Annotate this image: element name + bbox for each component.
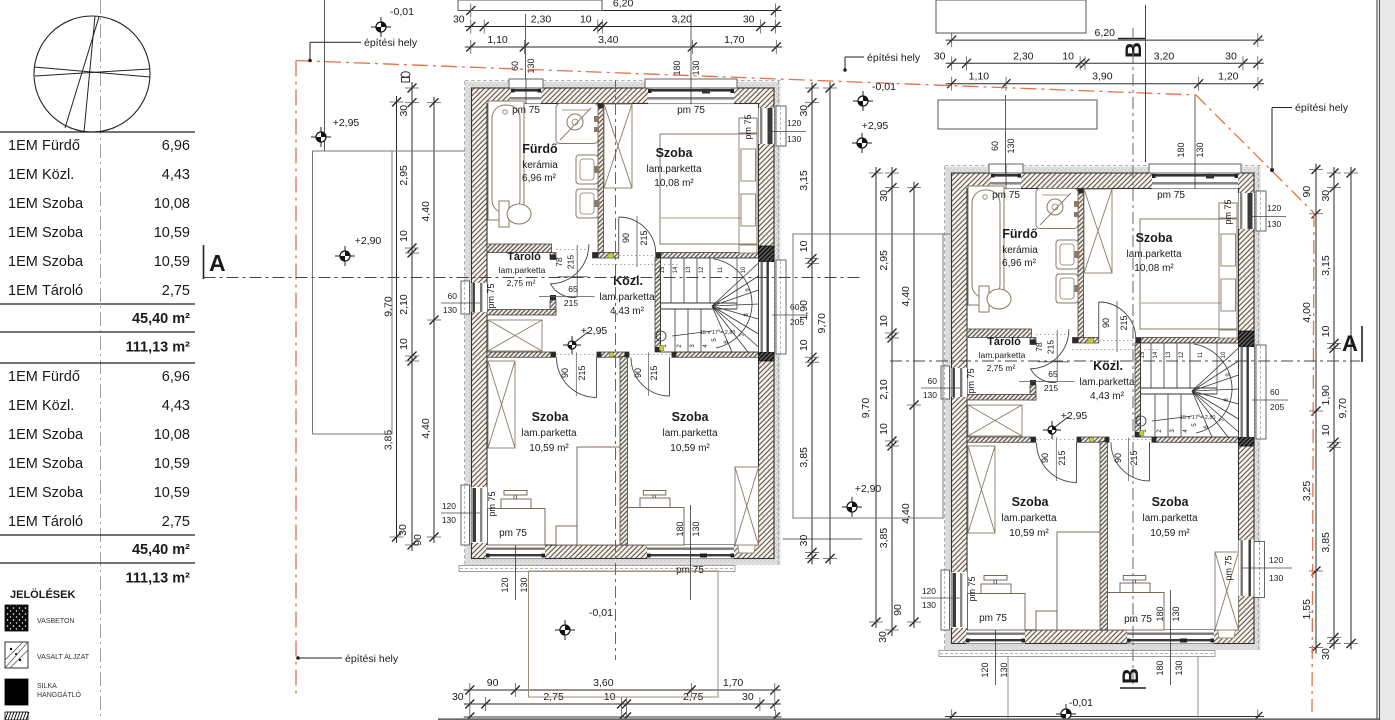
svg-text:4,40: 4,40 xyxy=(900,503,912,524)
svg-text:60: 60 xyxy=(990,141,1000,151)
svg-text:9,70: 9,70 xyxy=(816,313,828,334)
sill band below building xyxy=(459,566,735,572)
window W3 bottom-left xyxy=(486,545,545,559)
svg-text:180: 180 xyxy=(1176,142,1186,157)
sidebar divider dash line xyxy=(100,0,102,718)
right chain of right building xyxy=(1333,167,1335,650)
svg-text:1EM: 1EM xyxy=(8,456,38,472)
svg-text:1EM: 1EM xyxy=(8,514,38,530)
svg-text:6,96: 6,96 xyxy=(162,138,190,154)
bottom-left room furniture xyxy=(488,361,515,448)
yellow lintel marks xyxy=(608,254,614,259)
svg-text:1,20: 1,20 xyxy=(1218,71,1239,83)
svg-text:30: 30 xyxy=(1225,50,1237,62)
svg-text:1EM: 1EM xyxy=(8,254,38,270)
svg-text:10,59: 10,59 xyxy=(154,225,190,241)
svg-text:10,08 m²: 10,08 m² xyxy=(654,178,694,189)
svg-text:építési hely: építési hely xyxy=(1295,102,1349,114)
page right edge xyxy=(1376,0,1378,720)
svg-text:3,25: 3,25 xyxy=(1301,481,1313,502)
svg-text:1,90: 1,90 xyxy=(798,300,810,321)
svg-text:3,85: 3,85 xyxy=(798,447,810,468)
svg-text:180: 180 xyxy=(672,60,682,75)
window W4 bottom-right xyxy=(647,545,734,559)
svg-text:építési hely: építési hely xyxy=(364,37,418,49)
svg-text:65: 65 xyxy=(568,284,578,294)
orange boundary left vertical xyxy=(295,61,297,695)
svg-text:130: 130 xyxy=(691,521,701,536)
svg-text:4,43: 4,43 xyxy=(162,398,190,414)
interior floor xyxy=(487,104,759,546)
svg-text:215: 215 xyxy=(566,255,576,269)
svg-text:4,40: 4,40 xyxy=(900,286,912,307)
svg-text:Fürdő: Fürdő xyxy=(42,369,80,385)
svg-text:lam.parketta: lam.parketta xyxy=(646,164,701,175)
svg-text:1EM: 1EM xyxy=(8,427,38,443)
svg-text:2,10: 2,10 xyxy=(878,379,890,400)
svg-text:+2,90: +2,90 xyxy=(355,235,382,247)
svg-text:3,40: 3,40 xyxy=(598,34,619,46)
svg-text:10,59: 10,59 xyxy=(154,254,190,270)
svg-text:120: 120 xyxy=(1269,555,1283,565)
window W1 top (Furdo) xyxy=(509,79,543,88)
svg-text:9,70: 9,70 xyxy=(1337,398,1349,419)
svg-text:90: 90 xyxy=(560,368,570,378)
nook wardrobe xbox xyxy=(488,320,542,351)
svg-text:+2,95: +2,95 xyxy=(581,325,608,337)
orange boundary diagonal right xyxy=(1196,95,1314,213)
top chain left building xyxy=(465,10,782,12)
svg-text:10: 10 xyxy=(878,315,890,327)
svg-text:Közl.: Közl. xyxy=(613,274,643,288)
svg-text:építési hely: építési hely xyxy=(345,653,399,665)
svg-text:pm 75: pm 75 xyxy=(743,114,753,139)
svg-text:90: 90 xyxy=(633,368,643,378)
svg-text:Szoba: Szoba xyxy=(42,485,84,501)
svg-text:1,10: 1,10 xyxy=(487,34,508,46)
svg-text:3,90: 3,90 xyxy=(1092,71,1113,83)
svg-text:11: 11 xyxy=(718,266,724,273)
svg-text:10: 10 xyxy=(878,423,890,435)
shower xyxy=(556,104,598,144)
svg-text:130: 130 xyxy=(1195,142,1205,157)
svg-text:pm 75: pm 75 xyxy=(487,491,497,516)
svg-text:6,20: 6,20 xyxy=(613,0,634,10)
svg-text:15: 15 xyxy=(660,266,666,273)
svg-text:1,90: 1,90 xyxy=(1320,385,1332,406)
svg-text:Fürdő: Fürdő xyxy=(522,142,558,156)
svg-text:13: 13 xyxy=(686,266,692,273)
stairs xyxy=(661,258,759,352)
svg-text:12: 12 xyxy=(699,266,705,273)
svg-text:60: 60 xyxy=(510,61,520,71)
svg-text:3,85: 3,85 xyxy=(1320,532,1332,553)
svg-text:10: 10 xyxy=(798,339,810,351)
svg-text:1,10: 1,10 xyxy=(969,71,990,83)
terrace left of right building xyxy=(793,234,943,518)
svg-text:+2,90: +2,90 xyxy=(855,483,882,495)
svg-text:Szoba: Szoba xyxy=(42,254,84,270)
svg-text:-0,01: -0,01 xyxy=(390,6,414,18)
outer stipple band xyxy=(465,82,781,566)
svg-text:10,08: 10,08 xyxy=(154,427,190,443)
window W6 right wall top xyxy=(776,106,786,146)
svg-text:120: 120 xyxy=(787,118,801,128)
svg-text:10,59 m²: 10,59 m² xyxy=(529,443,569,454)
svg-text:10,59: 10,59 xyxy=(154,485,190,501)
svg-text:10: 10 xyxy=(1320,424,1332,436)
vent symbol xyxy=(401,72,410,78)
svg-text:30: 30 xyxy=(742,691,754,703)
svg-text:30: 30 xyxy=(878,190,890,202)
svg-text:180: 180 xyxy=(1155,660,1165,675)
svg-text:1,70: 1,70 xyxy=(723,677,744,689)
svg-text:90: 90 xyxy=(621,233,631,243)
svg-text:= 2,80: = 2,80 xyxy=(720,330,735,336)
svg-text:45,40 m²: 45,40 m² xyxy=(132,542,190,558)
svg-text:Szoba: Szoba xyxy=(42,456,84,472)
svg-text:6,96 m²: 6,96 m² xyxy=(522,173,557,184)
svg-text:60: 60 xyxy=(448,291,458,301)
svg-text:-0,01: -0,01 xyxy=(1069,697,1093,709)
svg-text:Tároló: Tároló xyxy=(507,251,541,263)
svg-text:30: 30 xyxy=(798,105,810,117)
svg-text:3,60: 3,60 xyxy=(593,677,614,689)
svg-text:130: 130 xyxy=(526,58,536,73)
svg-text:1EM: 1EM xyxy=(8,485,38,501)
svg-text:30: 30 xyxy=(934,50,946,62)
orange boundary right vertical xyxy=(1312,213,1314,712)
svg-text:lam.parketta: lam.parketta xyxy=(599,292,654,303)
svg-text:30: 30 xyxy=(398,105,410,117)
right bldg right-wall bottom window xyxy=(1239,540,1255,596)
svg-text:30: 30 xyxy=(1320,648,1332,660)
svg-text:1EM: 1EM xyxy=(8,225,38,241)
svg-text:15 x 17: 15 x 17 xyxy=(700,330,718,336)
svg-text:10: 10 xyxy=(1062,50,1074,62)
svg-text:4,40: 4,40 xyxy=(420,418,432,439)
svg-text:-0,01: -0,01 xyxy=(872,81,896,93)
svg-text:90: 90 xyxy=(412,534,424,546)
terrace below left building xyxy=(529,571,719,697)
page bottom edge xyxy=(438,718,1379,720)
svg-text:78: 78 xyxy=(554,257,564,267)
compass circle xyxy=(34,16,150,132)
svg-text:1EM: 1EM xyxy=(8,138,38,154)
left chain of left building xyxy=(396,96,398,543)
svg-text:111,13 m²: 111,13 m² xyxy=(126,340,191,356)
svg-text:+2,95: +2,95 xyxy=(333,117,360,129)
svg-text:Szoba: Szoba xyxy=(672,410,710,424)
svg-text:3,15: 3,15 xyxy=(798,170,810,191)
svg-text:45,40 m²: 45,40 m² xyxy=(132,311,190,327)
svg-text:3,15: 3,15 xyxy=(1320,255,1332,276)
svg-text:SILKA: SILKA xyxy=(37,683,57,690)
left bldg mystery leader line xyxy=(783,538,863,540)
svg-text:90: 90 xyxy=(1301,186,1313,198)
toilet xyxy=(499,201,509,227)
terrace below right building xyxy=(1007,656,1009,718)
terrace rect left of left building xyxy=(313,151,393,434)
svg-text:10: 10 xyxy=(741,266,747,273)
bottom-right room furniture xyxy=(735,467,759,545)
bathtub xyxy=(488,101,524,220)
svg-text:130: 130 xyxy=(691,60,701,75)
svg-text:pm 75: pm 75 xyxy=(1224,555,1234,580)
svg-text:JELÖLÉSEK: JELÖLÉSEK xyxy=(10,588,75,601)
svg-text:kerámia: kerámia xyxy=(522,160,558,171)
svg-text:pm 75: pm 75 xyxy=(512,105,540,116)
svg-text:4,40: 4,40 xyxy=(420,201,432,222)
right chain of left building (between buildings) xyxy=(811,82,813,565)
svg-text:10: 10 xyxy=(398,338,410,350)
wardrobe top szoba xyxy=(604,104,632,188)
window axis lines left top xyxy=(525,14,527,79)
svg-text:120: 120 xyxy=(500,577,510,592)
svg-text:6,20: 6,20 xyxy=(1095,27,1116,39)
top chain right building xyxy=(946,39,1264,41)
svg-text:-0,01: -0,01 xyxy=(589,607,613,619)
svg-text:30: 30 xyxy=(453,14,465,26)
svg-text:A: A xyxy=(209,250,226,276)
svg-text:Szoba: Szoba xyxy=(532,410,570,424)
svg-text:2,95: 2,95 xyxy=(878,250,890,271)
outer masonry walls xyxy=(472,88,775,559)
left building W2 top window xyxy=(645,79,737,88)
svg-text:Szoba: Szoba xyxy=(42,196,84,212)
svg-text:120: 120 xyxy=(442,501,456,511)
svg-text:130: 130 xyxy=(1174,660,1184,675)
svg-text:1,55: 1,55 xyxy=(1301,599,1313,620)
svg-text:pm 75: pm 75 xyxy=(486,283,496,308)
svg-text:3,85: 3,85 xyxy=(383,430,395,451)
svg-text:10,08: 10,08 xyxy=(154,196,190,212)
svg-text:111,13 m²: 111,13 m² xyxy=(126,571,191,587)
svg-text:215: 215 xyxy=(564,298,578,308)
svg-text:2,30: 2,30 xyxy=(1013,50,1034,62)
window W5 left wall (Tarolo) xyxy=(461,281,470,314)
svg-text:Szoba: Szoba xyxy=(42,225,84,241)
svg-text:2,95: 2,95 xyxy=(398,165,410,186)
svg-text:30: 30 xyxy=(798,535,810,547)
svg-text:4,43: 4,43 xyxy=(162,167,190,183)
svg-text:2,75 m²: 2,75 m² xyxy=(507,278,536,288)
svg-text:Szoba: Szoba xyxy=(42,427,84,443)
svg-text:építési hely: építési hely xyxy=(867,52,921,64)
svg-text:2,10: 2,10 xyxy=(398,294,410,315)
svg-text:2,30: 2,30 xyxy=(531,14,552,26)
svg-text:1EM: 1EM xyxy=(8,196,38,212)
dark piers beside stair window xyxy=(759,246,775,262)
svg-text:130: 130 xyxy=(1006,138,1016,153)
svg-text:30: 30 xyxy=(1320,190,1332,202)
svg-text:130: 130 xyxy=(519,577,529,592)
svg-text:90: 90 xyxy=(487,677,499,689)
svg-text:B: B xyxy=(1118,668,1143,684)
svg-text:10: 10 xyxy=(398,230,410,242)
svg-text:Tároló: Tároló xyxy=(42,514,83,530)
bottom window axis marks xyxy=(515,545,517,600)
svg-text:pm 75: pm 75 xyxy=(1124,614,1152,625)
svg-text:lam.parketta: lam.parketta xyxy=(499,265,546,275)
svg-text:VASBETON: VASBETON xyxy=(37,618,74,625)
svg-text:90: 90 xyxy=(892,604,904,616)
svg-text:Szoba: Szoba xyxy=(656,146,694,160)
svg-text:VASALT ALJZAT: VASALT ALJZAT xyxy=(37,654,90,661)
svg-text:HANGGÁTLÓ: HANGGÁTLÓ xyxy=(37,690,82,699)
svg-text:215: 215 xyxy=(577,365,587,380)
svg-text:180: 180 xyxy=(675,521,685,536)
bed top szoba xyxy=(660,134,757,244)
svg-text:215: 215 xyxy=(649,365,659,380)
svg-text:3,85: 3,85 xyxy=(878,528,890,549)
svg-text:pm 75: pm 75 xyxy=(677,105,705,116)
svg-text:30: 30 xyxy=(743,14,755,26)
svg-text:6,96: 6,96 xyxy=(162,369,190,385)
svg-text:10,59: 10,59 xyxy=(154,456,190,472)
interior walls xyxy=(598,104,604,253)
svg-text:30: 30 xyxy=(452,691,464,703)
svg-text:1EM: 1EM xyxy=(8,167,38,183)
svg-text:130: 130 xyxy=(1269,573,1283,583)
room table 1 xyxy=(0,131,195,133)
svg-text:10: 10 xyxy=(1320,325,1332,337)
right building W2 top window xyxy=(1149,164,1241,173)
orange boundary top xyxy=(296,61,1196,96)
svg-text:30: 30 xyxy=(397,524,409,536)
svg-text:pm 75: pm 75 xyxy=(499,528,527,539)
svg-text:2,75: 2,75 xyxy=(162,514,190,530)
svg-text:3,20: 3,20 xyxy=(1154,50,1175,62)
upper rects right bldg xyxy=(936,0,1086,33)
svg-text:9,70: 9,70 xyxy=(860,398,872,419)
sinks xyxy=(576,155,598,184)
bottom partial line right bldg xyxy=(945,716,1264,718)
upper small rect left xyxy=(458,0,602,11)
svg-text:1EM: 1EM xyxy=(8,369,38,385)
svg-text:1EM: 1EM xyxy=(8,398,38,414)
svg-text:130: 130 xyxy=(443,305,457,315)
svg-text:+2,95: +2,95 xyxy=(862,120,889,132)
section B line left bldg xyxy=(615,80,617,660)
svg-text:2,75: 2,75 xyxy=(162,283,190,299)
svg-text:14: 14 xyxy=(673,266,679,273)
svg-text:lam.parketta: lam.parketta xyxy=(521,428,576,439)
svg-text:Tároló: Tároló xyxy=(42,283,83,299)
svg-text:9,70: 9,70 xyxy=(383,296,395,317)
door arcs xyxy=(618,217,620,253)
svg-text:130: 130 xyxy=(442,515,456,525)
svg-text:Közl.: Közl. xyxy=(42,167,74,183)
svg-text:10: 10 xyxy=(580,14,592,26)
left chain of right building xyxy=(875,167,877,628)
svg-text:10: 10 xyxy=(798,240,810,252)
svg-text:3,20: 3,20 xyxy=(671,14,692,26)
svg-text:215: 215 xyxy=(639,230,649,245)
svg-text:Fürdő: Fürdő xyxy=(42,138,80,154)
svg-text:30: 30 xyxy=(877,631,889,643)
svg-text:1EM: 1EM xyxy=(8,283,38,299)
svg-text:4,00: 4,00 xyxy=(1301,302,1313,323)
svg-text:1,70: 1,70 xyxy=(724,34,745,46)
bottom chain left building xyxy=(464,689,781,691)
corner flue wedge bottom-right xyxy=(735,528,758,553)
svg-text:10,59 m²: 10,59 m² xyxy=(670,443,710,454)
window W9 left wall bottom xyxy=(461,485,470,545)
window W7 stairs right wall xyxy=(776,260,786,354)
svg-text:Közl.: Közl. xyxy=(42,398,74,414)
svg-text:A: A xyxy=(1342,331,1358,356)
svg-text:130: 130 xyxy=(787,134,801,144)
svg-text:lam.parketta: lam.parketta xyxy=(662,428,717,439)
